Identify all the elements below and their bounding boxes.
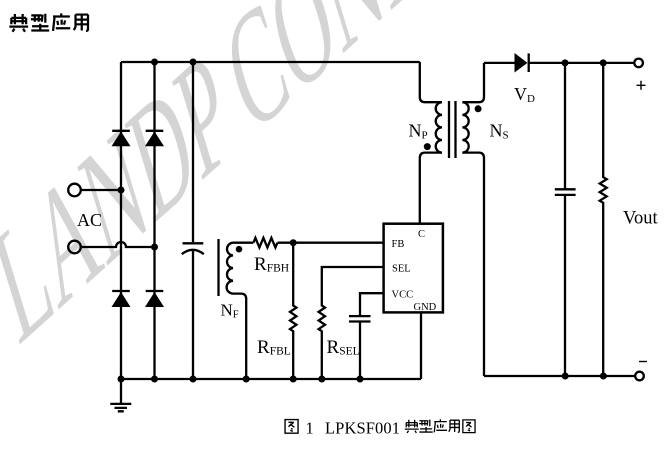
node FB [290,239,297,246]
diode D3 triangle [112,292,131,307]
wire GND pin down [420,312,422,379]
glyph title 典 [9,14,28,32]
wire output top [484,62,515,64]
glyph title 型 [31,14,49,31]
wire secondary bottom [462,153,484,376]
node out res bottom [600,373,607,380]
node top bus 2 [190,59,197,66]
diode D4 bar [146,290,164,292]
wire AC line1 [81,189,121,191]
IC U1 box [384,224,443,313]
diode D1 bar [112,130,130,132]
glyph title 用 [74,15,88,31]
terminal plus [634,59,643,68]
wire primary bottom to C pin [420,153,442,224]
node out res top [600,59,607,66]
diode VD bar [528,53,530,72]
glyph caption 图 [463,420,475,433]
glyph caption 应 [434,419,447,432]
wire VCC to cap [360,293,384,316]
wire top bus [121,61,420,63]
diode D4 triangle [145,292,164,307]
node bottom RFBL [290,376,297,383]
glyph title 应 [53,13,70,31]
capacitor Cvcc [349,316,371,321]
glyph caption 型 [419,420,433,432]
ground [110,379,131,411]
wire filter-cap branch top [192,62,194,242]
glyph caption 典 [405,420,419,433]
wire bridge branch 2 [153,62,155,379]
wire secondary top [462,63,484,102]
label plus sign [637,81,646,90]
wire SEL + resistor RSEL [319,267,384,379]
wire output cap bottom [564,195,566,376]
wire bottom bus left [121,378,421,380]
node bottom 2 [151,376,158,383]
wire bridge branch 1 [120,62,122,379]
winding NF [227,243,233,294]
node AC2 [151,244,158,251]
resistor RFBL [290,243,296,379]
polarity dot NP [424,143,431,150]
wire primary top [420,62,442,102]
terminal minus [635,372,644,381]
glyph caption 图 (first) [285,420,298,434]
terminal AC1 [68,184,81,197]
wire Cvcc bottom [359,322,361,380]
wire VD to plus [529,62,635,64]
diode D3 bar [112,290,130,292]
winding NP [436,102,442,152]
resistor load [600,63,607,376]
wire output cap top [564,63,566,189]
diode D1 triangle [112,132,131,147]
transformer NF core [217,239,219,296]
transformer core [449,101,456,158]
wire filter-cap branch bottom [192,250,194,379]
node out cap top [562,59,569,66]
winding NS [462,102,468,152]
node bottom NF [243,376,250,383]
label minus sign [639,361,647,363]
wire NF bottom [233,294,246,379]
polarity dot NS [475,105,482,112]
diode D2 bar [146,130,164,132]
node bottom RSEL [318,376,325,383]
node out cap bottom [562,373,569,380]
polarity dot NF [236,246,243,253]
capacitor C1 plates [183,242,204,244]
wire AC line2 with hop [81,242,155,247]
diode VD triangle [515,53,528,73]
diode D2 triangle [145,132,164,147]
node AC1 [118,187,125,194]
wire bottom bus right [484,375,635,377]
node bottom 1 [118,376,125,383]
wire NF top to RFBH [233,242,253,244]
glyph caption 用 [449,420,459,432]
wire RFBH to FB pin [278,242,384,244]
capacitor Cout plates [555,189,576,195]
node top bus 1 [151,59,158,66]
resistor RFBH [253,238,277,248]
node bottom 3 [190,376,197,383]
node bottom Cvcc [357,376,364,383]
terminal AC2 [68,241,81,254]
